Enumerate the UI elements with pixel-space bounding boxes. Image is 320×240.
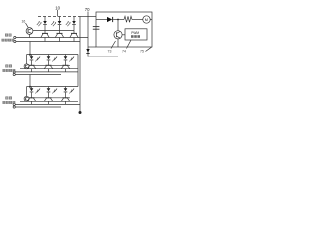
- wire row3c1 anode drop: [31, 87, 33, 89]
- wire leader to label 75: [146, 47, 152, 51]
- label C-phase input (row1, blurred glyph blocks): [2, 34, 15, 42]
- LED arrows row2c3: [69, 57, 74, 62]
- wire row3 neutral stub: [15, 106, 61, 108]
- LED diode row2c3: [64, 56, 68, 60]
- wire Q1 emitter to bus: [29, 34, 31, 37]
- svg-text:PWM: PWM: [131, 31, 139, 35]
- LED diode row2c2: [47, 56, 51, 60]
- LED diode row1c1: [43, 21, 47, 25]
- node terminal circle row1 a: [14, 36, 16, 38]
- LED diode row3c2: [47, 88, 51, 92]
- wire row2c2 anode drop: [48, 55, 50, 57]
- svg-text:16: 16: [22, 19, 26, 23]
- LED arrows row3c1: [35, 89, 40, 94]
- svg-text:74: 74: [122, 50, 126, 54]
- wire row1c1 anode drop: [44, 17, 46, 22]
- node terminal circle row3 a: [13, 103, 15, 105]
- wire connector row2 stub to row3 rail: [29, 75, 31, 87]
- wire Q70 emitter: [117, 39, 119, 47]
- wire row2 mid line: [29, 64, 70, 66]
- node junction dot row3 rail: [29, 86, 31, 88]
- wire row2c1 anode drop: [31, 55, 33, 57]
- LED arrows row1c3: [66, 21, 71, 26]
- LED arrows row2c1: [35, 57, 40, 62]
- svg-text:M: M: [145, 18, 148, 22]
- transistor Q3 (circle type, row3 left): [24, 96, 29, 101]
- wire row1c2 bus tick: [59, 38, 61, 42]
- transistor row2c3: [61, 65, 69, 68]
- label phase input (row3 glyph blocks): [3, 97, 16, 104]
- diode D2 on bus B2: [86, 49, 89, 54]
- transistor row3c1: [27, 98, 35, 102]
- svg-text:70: 70: [85, 7, 90, 12]
- wire row1c3 bus tick: [73, 38, 75, 42]
- wire row1 lower bus: [16, 41, 80, 43]
- capacitor C1: [93, 27, 100, 30]
- node terminal circle row2 b: [13, 73, 15, 75]
- wire row2 left drop: [26, 55, 28, 64]
- wire row3c3 cathode to mid: [65, 92, 67, 98]
- node terminal circle row2 a: [13, 71, 15, 73]
- label phase input (row2 glyph blocks): [3, 65, 16, 72]
- wire row1 upper bus: [16, 37, 88, 39]
- wire row2 lower bus: [15, 71, 78, 73]
- transistor row3c2: [44, 98, 52, 102]
- wire row3c2 cathode to mid: [48, 92, 50, 98]
- wire leader from 16 to Q1: [26, 23, 29, 28]
- svg-text:10: 10: [55, 5, 60, 10]
- wire row1 mid collector line: [33, 30, 74, 32]
- wire Q3 to bus: [26, 100, 28, 102]
- svg-text:73: 73: [108, 50, 112, 54]
- wire row3 mid line: [29, 97, 70, 99]
- wire after L1: [132, 19, 143, 21]
- wire connector row1 bus to row2 rail: [29, 42, 31, 55]
- wire row3 upper bus: [20, 100, 78, 102]
- inductor L1 (zigzag): [124, 16, 132, 22]
- wire vertical bus B1: [79, 17, 81, 113]
- wire motor to box edge: [150, 19, 152, 21]
- LED arrows row1c2: [51, 21, 56, 26]
- LED diode row1c2: [58, 21, 62, 25]
- wire row2c3 anode drop: [65, 55, 67, 57]
- wire row2c3 bus tick: [65, 69, 67, 72]
- LED diode row3c1: [30, 88, 34, 92]
- LED arrows row3c3: [69, 89, 74, 94]
- transistor row1c3: [70, 31, 78, 38]
- LED arrows row3c2: [52, 89, 57, 94]
- transistor Q70: [114, 31, 122, 39]
- motor M1: [143, 16, 150, 23]
- LED diode row1c3: [72, 21, 76, 25]
- transistor Q1 (circle type, row1 left): [26, 28, 33, 35]
- node junction dot row2 rail: [29, 54, 31, 56]
- node terminal circle row1 b: [14, 40, 16, 42]
- wire row3c2 anode drop: [48, 87, 50, 89]
- transistor row2c2: [44, 65, 52, 68]
- node terminal circle row3 b: [13, 106, 15, 108]
- wire row3c1 bus tick: [31, 101, 33, 104]
- transistor Q2 (circle type, row2 left): [24, 64, 29, 69]
- power unit box U70: [96, 12, 152, 47]
- LED arrows row2c2: [52, 57, 57, 62]
- diode D1: [107, 17, 113, 22]
- transistor row1c2: [55, 31, 63, 38]
- wire leader to label 73: [111, 41, 116, 49]
- wire row3 lower bus: [15, 103, 80, 105]
- wire row2 neutral stub: [15, 74, 61, 76]
- wire row3c3 anode drop: [65, 87, 67, 89]
- PWM controller box U71: [125, 29, 147, 40]
- wire Q70 base to controller: [122, 34, 125, 36]
- wire top dashed bus of phase unit: [38, 16, 80, 18]
- node junction dot on rail: [117, 19, 119, 21]
- wire after D1: [113, 19, 124, 21]
- LED diode row2c1: [30, 56, 34, 60]
- wire row2c2 bus tick: [48, 69, 50, 72]
- label controller glyph blocks: [131, 35, 140, 38]
- wire row3 left drop: [26, 87, 28, 97]
- wire leader from 70: [87, 12, 89, 17]
- wire row3c3 bus tick: [65, 101, 67, 104]
- wire row3 top rail: [27, 86, 78, 88]
- transistor row2c1: [27, 65, 35, 68]
- wire row2 upper bus: [20, 68, 78, 70]
- wire bottom rail extension to bus B2: [88, 46, 96, 48]
- wire row2 top rail: [27, 54, 78, 56]
- transistor row1c1: [41, 31, 49, 38]
- wire vertical bus B2: [87, 17, 89, 57]
- wire row2c1 cathode to mid: [31, 60, 33, 65]
- svg-text:75: 75: [140, 50, 144, 54]
- wire vertical bus B3 between row2 and row3: [77, 55, 79, 87]
- wire main rail in box: [96, 19, 107, 21]
- wire leader from label 1: [57, 10, 59, 17]
- wire row2c3 cathode to mid: [65, 60, 67, 65]
- node terminal dot at bottom of bus B1: [79, 111, 82, 114]
- wire top bus solid continuation: [80, 16, 96, 18]
- wire row1c3 cathode to mid: [73, 25, 75, 31]
- LED arrows row1c1: [37, 21, 42, 26]
- wire faint return from D2 cathode: [88, 56, 118, 58]
- wire row1c2 cathode to mid: [59, 25, 61, 31]
- wire row2c2 cathode to mid: [48, 60, 50, 65]
- wire row1c1 bus tick: [44, 38, 46, 42]
- transistor row3c3: [61, 98, 69, 102]
- LED diode row3c3: [64, 88, 68, 92]
- wire row1c3 anode drop: [73, 17, 75, 22]
- wire row1c1 cathode to mid: [44, 25, 46, 31]
- wire leader to label 74: [127, 40, 132, 49]
- wire row3c2 bus tick: [48, 101, 50, 104]
- wire row3c1 cathode to mid: [31, 92, 33, 98]
- wire Q2 to bus: [26, 68, 28, 70]
- wire row1c2 anode drop: [59, 17, 61, 22]
- wire row2c1 bus tick: [31, 69, 33, 72]
- wire rail down to Q70 collector: [117, 20, 119, 31]
